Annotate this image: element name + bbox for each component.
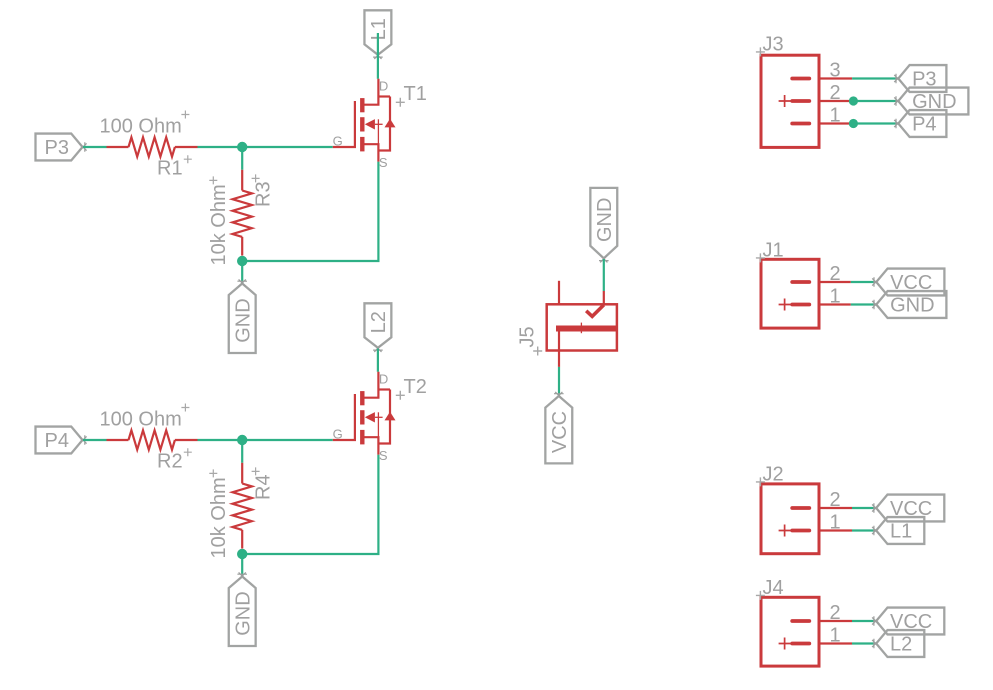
power flag GND xyxy=(229,279,256,353)
svg-text:S: S xyxy=(379,155,388,170)
wire T2 source to junction xyxy=(242,455,378,554)
wire J3 pin 1 to P4 xyxy=(853,122,897,124)
svg-text:R1: R1 xyxy=(157,158,183,180)
wire junction to GND flag xyxy=(241,261,243,284)
node P3 gate junction xyxy=(237,142,247,152)
node J3 pin 1 junction xyxy=(849,119,858,128)
J1 pin 2 lead xyxy=(819,281,851,283)
svg-text:S: S xyxy=(379,448,388,463)
jumper J5 xyxy=(517,281,618,367)
J3 pin 2 lead xyxy=(819,100,853,102)
wire J3 pin 2 to GND xyxy=(853,100,897,102)
wire J2 pin 1 to L1 xyxy=(852,529,876,531)
connector J1 xyxy=(756,240,819,329)
J3 pin 3 lead xyxy=(819,77,852,79)
wire L1 to T1 drain xyxy=(377,33,379,79)
svg-text:L1: L1 xyxy=(890,521,912,543)
connector J3 xyxy=(756,34,819,148)
svg-text:GND: GND xyxy=(232,298,254,342)
connector J4 xyxy=(756,577,819,666)
power flag GND (J1) xyxy=(872,291,946,318)
resistor R4 10k Ohm xyxy=(208,463,275,559)
net label P4 xyxy=(36,427,87,454)
svg-text:R4: R4 xyxy=(253,474,275,500)
transistor T2 xyxy=(333,372,427,463)
power flag VCC (J1) xyxy=(872,269,944,296)
wire J2 pin 2 to VCC xyxy=(852,507,876,509)
svg-text:10k Ohm: 10k Ohm xyxy=(208,477,230,558)
wire GND to J5 pin 2 xyxy=(603,259,605,291)
net label P3 (J3) xyxy=(894,65,946,92)
pin number 1 xyxy=(830,286,841,308)
svg-text:L2: L2 xyxy=(368,311,390,333)
net label L1 xyxy=(364,10,391,59)
node J3 pin 2 junction xyxy=(849,96,858,105)
svg-text:R2: R2 xyxy=(157,451,183,473)
svg-text:GND: GND xyxy=(594,198,616,242)
wire junction to R4 xyxy=(241,440,243,463)
J4 pin 2 lead xyxy=(819,620,852,622)
svg-text:L2: L2 xyxy=(890,634,912,656)
svg-text:100 Ohm: 100 Ohm xyxy=(100,409,182,431)
power flag VCC (J5) xyxy=(545,392,572,464)
connector J2 xyxy=(756,464,819,554)
power flag GND xyxy=(229,572,256,646)
wire J1 pin 2 to VCC xyxy=(851,281,877,283)
pin number 2 xyxy=(830,489,841,511)
pin number 1 xyxy=(830,512,841,534)
wire P3 to R1 xyxy=(83,146,107,148)
svg-text:J2: J2 xyxy=(763,464,784,486)
node P4 gate junction xyxy=(237,435,247,445)
svg-text:L1: L1 xyxy=(368,18,390,40)
svg-text:P3: P3 xyxy=(45,137,69,159)
node R4 source junction xyxy=(237,549,247,559)
power flag VCC (J2) xyxy=(872,495,944,522)
pin number 2 xyxy=(830,82,841,104)
wire junction to R3 xyxy=(241,147,243,170)
power flag GND (J3) xyxy=(894,88,968,115)
wire R2 to T2 gate xyxy=(198,439,333,441)
resistor R1 100 Ohm xyxy=(100,111,198,180)
svg-text:VCC: VCC xyxy=(549,411,571,453)
svg-text:T2: T2 xyxy=(404,376,427,398)
J4 pin 1 lead xyxy=(819,642,852,644)
J2 pin 1 lead xyxy=(819,529,852,531)
J3 pin 1 lead xyxy=(819,122,853,124)
svg-text:J1: J1 xyxy=(763,240,784,262)
wire J3 pin 3 to P3 xyxy=(852,77,898,79)
svg-text:R3: R3 xyxy=(253,181,275,207)
resistor R2 100 Ohm xyxy=(100,404,198,473)
svg-text:G: G xyxy=(333,427,343,442)
wire T1 source to junction xyxy=(242,162,378,261)
svg-text:G: G xyxy=(333,134,343,149)
wire J5 pin 1 to VCC xyxy=(558,367,560,396)
power flag GND (J5) xyxy=(590,188,617,263)
pin number 3 xyxy=(830,60,841,82)
svg-text:J3: J3 xyxy=(763,34,784,56)
net label P4 (J3) xyxy=(894,110,946,137)
wire J1 pin 1 to GND xyxy=(851,303,877,305)
svg-text:GND: GND xyxy=(232,591,254,635)
svg-text:T1: T1 xyxy=(404,83,427,105)
svg-text:100 Ohm: 100 Ohm xyxy=(100,116,182,138)
net label L2 (J4) xyxy=(872,630,924,657)
J2 pin 2 lead xyxy=(819,507,852,509)
svg-text:10k Ohm: 10k Ohm xyxy=(208,184,230,265)
power flag VCC (J4) xyxy=(872,608,944,635)
wire L2 to T2 drain xyxy=(377,349,379,372)
wire junction to GND flag xyxy=(241,554,243,577)
pin number 2 xyxy=(830,263,841,285)
svg-text:D: D xyxy=(379,372,388,387)
svg-text:J5: J5 xyxy=(517,326,539,347)
resistor R3 10k Ohm xyxy=(208,170,275,266)
transistor T1 xyxy=(333,79,427,170)
svg-text:P4: P4 xyxy=(912,114,936,136)
wire J4 pin 1 to L2 xyxy=(852,642,876,644)
net label L2 xyxy=(364,303,391,352)
svg-text:P4: P4 xyxy=(45,430,69,452)
svg-text:GND: GND xyxy=(890,295,934,317)
wire P4 to R2 xyxy=(83,439,107,441)
pin number 2 xyxy=(830,602,841,624)
node R3 source junction xyxy=(237,256,247,266)
svg-text:J4: J4 xyxy=(763,577,784,599)
net label L1 (J2) xyxy=(872,517,924,544)
wire J4 pin 2 to VCC xyxy=(852,620,876,622)
svg-text:D: D xyxy=(379,79,388,94)
net label P3 xyxy=(36,134,87,161)
wire R1 to T1 gate xyxy=(198,146,333,148)
pin number 1 xyxy=(830,625,841,647)
pin number 1 xyxy=(830,105,841,127)
J1 pin 1 lead xyxy=(819,303,851,305)
